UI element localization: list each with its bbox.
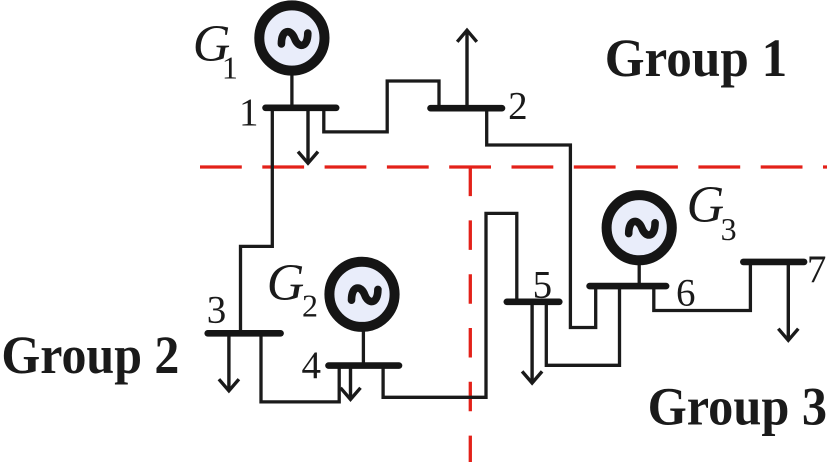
injection arrow at bus2 (up) [457,30,477,106]
svg-text:6: 6 [676,272,696,315]
svg-text:5: 5 [533,264,553,307]
svg-text:Group 1: Group 1 [605,27,788,88]
load arrow at bus7 [778,263,798,340]
red dashed vertical partition line [469,167,472,462]
generator G1 stem [290,70,293,108]
generator G2 circle [329,262,394,327]
svg-text:1: 1 [222,50,238,86]
wire bus6 to bus7 [654,262,751,311]
generator G1 circle [259,5,324,70]
bus 1 [266,105,337,112]
red dashed horizontal partition line [200,165,827,168]
load arrow at bus4 [341,367,361,399]
svg-text:7: 7 [807,248,827,291]
svg-text:G: G [267,255,305,312]
bus 6 [590,283,667,290]
wire bus2 to bus6 [487,108,596,328]
wire bus1 to bus2 [324,81,439,132]
svg-text:Group 2: Group 2 [1,324,179,385]
bus 3 [208,330,281,337]
wire bus3 to bus4 [261,333,339,402]
bus 5 [507,298,560,305]
svg-text:1: 1 [239,91,259,134]
bus 4 [329,362,400,369]
load arrow at bus3 [219,335,239,391]
bus 7 [743,259,804,266]
svg-text:2: 2 [508,85,527,128]
svg-text:3: 3 [207,289,227,332]
svg-text:2: 2 [302,287,318,323]
load arrow at bus5 [522,303,542,383]
generator G2 stem [362,326,365,366]
generator G3 stem [638,260,641,286]
svg-text:Group 3: Group 3 [648,375,827,436]
svg-text:3: 3 [721,211,737,247]
svg-text:4: 4 [302,344,322,387]
wire bus5 to bus6 [546,286,619,365]
wire bus4 to bus5 [383,213,517,397]
bus 2 [431,105,503,112]
wire bus1 to bus3 [241,108,273,333]
load arrow at bus1 [298,110,318,163]
svg-text:G: G [687,177,725,234]
generator G3 circle [607,195,672,260]
